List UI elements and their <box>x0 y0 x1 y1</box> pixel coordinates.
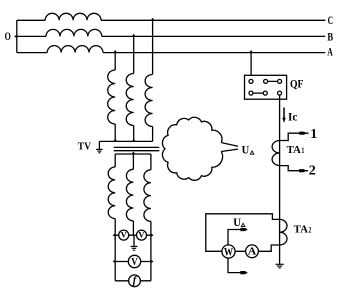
svg-text:A: A <box>327 45 333 59</box>
svg-text:2: 2 <box>309 224 312 234</box>
svg-text:1: 1 <box>302 145 305 155</box>
svg-text:O: O <box>5 29 11 43</box>
svg-text:V: V <box>138 230 145 240</box>
svg-text:U: U <box>233 217 241 229</box>
svg-text:QF: QF <box>290 79 304 91</box>
svg-text:A: A <box>248 246 257 258</box>
svg-text:U: U <box>242 145 250 157</box>
svg-text:1: 1 <box>310 127 317 142</box>
svg-text:V: V <box>121 230 128 240</box>
svg-text:Ic: Ic <box>288 111 297 123</box>
svg-text:TA: TA <box>287 144 301 156</box>
svg-text:B: B <box>327 29 333 43</box>
svg-text:TV: TV <box>78 142 92 153</box>
svg-text:V: V <box>131 257 138 268</box>
svg-text:TA: TA <box>294 223 308 235</box>
svg-text:C: C <box>328 13 334 27</box>
svg-text:2: 2 <box>309 164 316 179</box>
svg-text:W: W <box>224 246 234 258</box>
